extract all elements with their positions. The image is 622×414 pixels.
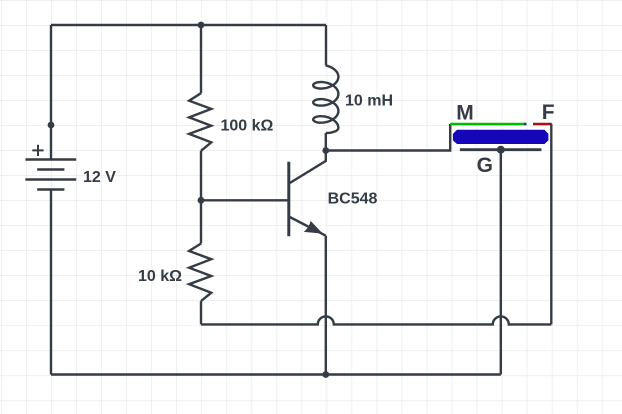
svg-text:F: F bbox=[542, 101, 555, 124]
svg-text:12 V: 12 V bbox=[83, 169, 116, 186]
svg-text:100 kΩ: 100 kΩ bbox=[221, 118, 274, 135]
battery plus sign bbox=[32, 145, 43, 156]
wire 10k bottom lead bbox=[200, 301, 202, 324]
wire inductor top lead bbox=[325, 25, 327, 66]
svg-text:BC548: BC548 bbox=[328, 191, 378, 208]
wire inductor bottom lead bbox=[325, 133, 327, 151]
node base junction bbox=[198, 197, 205, 204]
component electrode F (red) bbox=[533, 123, 552, 126]
transistor Q1 collector bbox=[290, 151, 326, 184]
wire base bbox=[201, 199, 288, 201]
wire battery bottom lead bbox=[50, 190, 52, 375]
wire 100k top lead bbox=[200, 25, 202, 93]
inductor L1 coil bbox=[313, 66, 338, 134]
svg-text:10 kΩ: 10 kΩ bbox=[138, 268, 182, 285]
wire mid-bottom rail with hops bbox=[201, 316, 551, 324]
wire 10k top lead bbox=[200, 200, 202, 243]
wire G lead bbox=[500, 150, 502, 375]
resistor R2 10k zigzag bbox=[189, 244, 211, 302]
transistor Q1 emitter arrow bbox=[304, 221, 323, 234]
svg-text:G: G bbox=[477, 154, 493, 177]
wire 100k bottom lead bbox=[200, 151, 202, 201]
transistor Q1 emitter bbox=[290, 217, 326, 236]
wire bottom rail bbox=[51, 373, 501, 375]
node collector junction bbox=[322, 147, 329, 154]
resistor R1 100k zigzag bbox=[189, 93, 211, 151]
node G junction bbox=[497, 146, 505, 154]
battery B1 plates bbox=[25, 160, 76, 190]
wire left rail bbox=[50, 25, 52, 159]
node emitter-bottom junction bbox=[322, 371, 329, 378]
component electrode M dark tip bbox=[524, 123, 527, 125]
transistor Q1 base bar bbox=[287, 162, 290, 237]
wire emitter lead bbox=[325, 236, 327, 375]
node battery top bbox=[48, 122, 55, 129]
svg-text:10 mH: 10 mH bbox=[345, 93, 393, 110]
svg-text:M: M bbox=[456, 102, 474, 125]
wire collector junction to component bbox=[326, 124, 450, 151]
node top junction bbox=[198, 22, 205, 29]
component top electrode M (green) bbox=[450, 123, 526, 126]
component bottom electrode G bbox=[460, 148, 542, 151]
component crystal blue bar bbox=[453, 130, 549, 144]
wire right rail bbox=[550, 124, 552, 324]
wire top rail bbox=[51, 24, 326, 26]
